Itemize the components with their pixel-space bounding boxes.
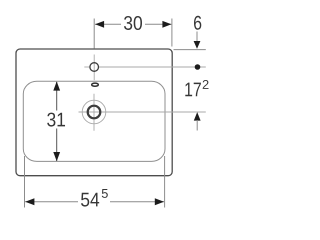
overflow slot (92, 83, 99, 86)
dim 31: dimension line (56, 82, 58, 161)
dim 17.2: up arrowhead onto drain line (194, 112, 201, 121)
dim label 31 (47, 113, 65, 127)
dim label 6 (194, 16, 201, 30)
dim 54.5: right arrowhead (155, 198, 164, 205)
dim 6: down arrowhead onto top edge (194, 41, 201, 49)
faucet hole centerline vertical (93, 55, 95, 81)
dim 6: arrow stem (196, 32, 198, 42)
dim 30: extension line above basin right edge (171, 19, 173, 47)
dim 31: up arrowhead (53, 81, 60, 90)
dim label 30 (124, 16, 142, 30)
top edge right extension line (174, 49, 206, 51)
inner basin outline (23, 81, 165, 161)
dim 31: down arrowhead (53, 152, 60, 161)
drain centerline horizontal / reference line to right margin (79, 111, 206, 113)
dim 54.5: dimension line (25, 201, 164, 203)
drain centerline vertical (93, 94, 95, 131)
dim 6 / dim 17.2: reference dot on faucet line (195, 64, 201, 70)
dim label 17 superscript 2 (203, 80, 209, 89)
dim label 54 superscript 5 (102, 189, 108, 198)
faucet hole centerline left tick (84, 66, 89, 68)
washbasin outer outline (16, 49, 172, 176)
dim label 17 (185, 83, 201, 97)
drain outer circle (82, 100, 106, 124)
dim 30: extension line above faucet hole (93, 19, 95, 49)
faucet hole (90, 63, 99, 72)
dim 31: label mask (44, 111, 69, 129)
faucet hole reference line to right margin (99, 66, 206, 68)
dim label 54 (81, 193, 99, 207)
dim 54.5: label mask (78, 192, 110, 209)
dim 30: dimension line (95, 23, 171, 25)
dim 54.5: right extension line (164, 156, 166, 208)
dim 54.5: left extension line (24, 156, 26, 208)
dim 30: label mask (121, 15, 145, 32)
drain inner ring (88, 106, 101, 119)
dim 30: right arrowhead (162, 21, 171, 28)
dim 17.2: arrow stem (196, 120, 198, 131)
dim 54.5: left arrowhead (25, 198, 34, 205)
dim 30: left arrowhead (95, 21, 104, 28)
